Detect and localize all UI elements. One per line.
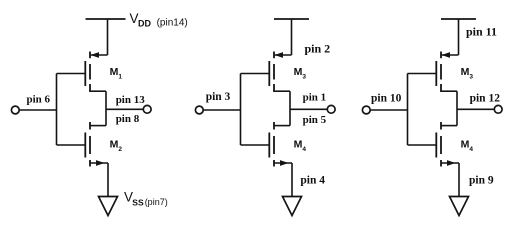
transistor M3 (right) channel (dashed) (440, 52, 442, 93)
wire M3 gate lead (241, 73, 270, 75)
svg-text:pin 5: pin 5 (303, 114, 327, 126)
wire M1 drain lead (90, 90, 106, 92)
wire M2 gate lead (57, 144, 86, 146)
svg-text:M2: M2 (110, 139, 123, 154)
wire ground stem (inverter 2) (291, 163, 293, 197)
wire output (inverter 3) (457, 108, 494, 110)
transistor M4 channel (dashed) (273, 122, 275, 167)
ground symbol (inverter 1) (99, 197, 118, 216)
wire VDD stem (inverter 3) (458, 19, 460, 55)
svg-text:pin 2: pin 2 (305, 41, 331, 55)
wire M3 (right) drain lead (441, 90, 457, 92)
wire M4 drain lead (274, 125, 290, 127)
wire VDD stem (inverter 1) (107, 19, 109, 55)
svg-text:SS: SS (132, 198, 144, 208)
svg-text:M4: M4 (461, 139, 474, 154)
transistor M4 source lead with NMOS arrow (275, 160, 293, 166)
svg-text:pin 1: pin 1 (303, 92, 327, 104)
svg-text:pin 10: pin 10 (371, 93, 402, 105)
VDD rail bar (inverter 1) (86, 18, 126, 20)
svg-text:DD: DD (138, 19, 151, 29)
wire output bus (inverter 1) (105, 91, 107, 125)
transistor M2 gate plate (84, 133, 86, 158)
wire M1 gate lead (57, 73, 86, 75)
wire M4 (right) drain lead (441, 125, 457, 127)
transistor M1 gate plate (84, 61, 86, 86)
label VDD (pin14) (130, 11, 188, 28)
svg-text:pin 12: pin 12 (470, 93, 501, 105)
svg-text:pin 9: pin 9 (469, 175, 494, 187)
wire output (inverter 1) (106, 108, 143, 110)
VDD rail bar (inverter 2) (274, 18, 309, 20)
wire gate bus (inverter 3) (407, 74, 409, 146)
wire output bus (inverter 2) (289, 91, 291, 125)
svg-text:pin 13: pin 13 (116, 94, 146, 106)
transistor M3 gate plate (268, 61, 270, 86)
svg-text:pin 8: pin 8 (116, 113, 140, 125)
svg-text:pin 6: pin 6 (27, 93, 51, 105)
wire VDD stem (inverter 2) (291, 19, 293, 55)
wire input (inverter 2) (204, 109, 241, 111)
wire output bus (inverter 3) (456, 91, 458, 125)
transistor M1 channel (dashed) (89, 52, 91, 93)
svg-text:pin 3: pin 3 (206, 91, 231, 103)
wire ground stem (inverter 1) (107, 163, 109, 197)
node input terminal (inverter 3) (362, 106, 370, 114)
svg-text:M3: M3 (294, 66, 307, 81)
transistor M4 (right) gate plate (435, 133, 437, 158)
svg-text:(pin14): (pin14) (157, 17, 188, 28)
transistor M2 source lead with NMOS arrow (91, 160, 109, 166)
node input terminal (inverter 1) (11, 106, 19, 114)
transistor M3 channel (dashed) (273, 52, 275, 93)
ground symbol (inverter 3) (450, 197, 469, 216)
label VSS (pin7) (124, 190, 168, 208)
VDD rail bar (inverter 3) (441, 18, 476, 20)
transistor M4 (right) channel (dashed) (440, 122, 442, 167)
wire output (inverter 2) (290, 108, 327, 110)
wire ground stem (inverter 3) (458, 163, 460, 197)
wire M4 gate lead (241, 144, 270, 146)
svg-text:pin 11: pin 11 (466, 25, 497, 39)
node output terminal (inverter 1) (143, 105, 151, 113)
node output terminal (inverter 2) (327, 105, 335, 113)
wire gate bus (inverter 1) (56, 74, 58, 146)
wire M2 drain lead (90, 125, 106, 127)
transistor M3 (right) gate plate (435, 61, 437, 86)
svg-text:M1: M1 (110, 66, 123, 81)
transistor M4 (right) source lead with NMOS arrow (442, 160, 460, 166)
svg-text:M3: M3 (461, 66, 474, 81)
wire M3 (right) gate lead (408, 73, 437, 75)
transistor M1 source lead with PMOS arrow (91, 52, 108, 58)
transistor M3 (right) source lead with PMOS arrow (442, 52, 459, 58)
wire M3 drain lead (274, 90, 290, 92)
svg-text:pin 4: pin 4 (300, 175, 325, 187)
transistor M3 source lead with PMOS arrow (275, 52, 292, 58)
node input terminal (inverter 2) (195, 106, 203, 114)
wire input (inverter 3) (371, 109, 408, 111)
svg-text:(pin7): (pin7) (145, 197, 168, 207)
wire gate bus (inverter 2) (240, 74, 242, 146)
wire input (inverter 1) (20, 109, 57, 111)
node output terminal (inverter 3) (494, 105, 502, 113)
svg-text:M4: M4 (294, 139, 307, 154)
transistor M4 gate plate (268, 133, 270, 158)
transistor M2 channel (dashed) (89, 122, 91, 167)
wire M4 (right) gate lead (408, 144, 437, 146)
ground symbol (inverter 2) (283, 197, 302, 216)
